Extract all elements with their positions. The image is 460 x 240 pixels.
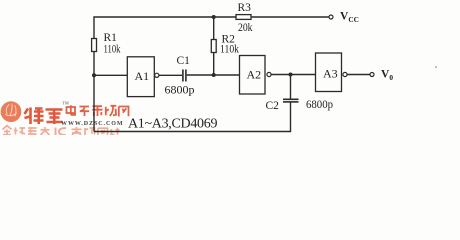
capacitor C2 [283,99,299,102]
label circuit note A1~A3,CD4069 [128,117,217,132]
svg-text:A3: A3 [323,67,338,81]
label R1 [104,32,118,44]
svg-text:110k: 110k [220,44,239,56]
svg-text:R3: R3 [238,2,252,14]
svg-text:A2: A2 [247,68,262,82]
watermark TM [63,101,70,106]
svg-text:6800p: 6800p [306,99,333,111]
inverter A3 [316,53,348,92]
svg-text:R1: R1 [104,32,118,44]
watermark logo circle [1,101,22,122]
junction A2 output / C2 branch [289,73,293,77]
capacitor C1 [183,70,186,82]
label R3 [238,2,252,14]
terminal Vo [370,73,374,77]
wire: top rail [94,17,329,132]
inverter A2 [240,56,272,95]
junction top rail / R2 [212,15,216,19]
label C2 [266,100,280,112]
label 20k (R3) [238,22,253,34]
svg-text:20k: 20k [238,22,253,34]
svg-text:WWW.DZSC.COM: WWW.DZSC.COM [61,121,124,127]
label 6800p (C1) [165,85,195,97]
label 6800p (C2) [306,99,333,111]
svg-text:A1: A1 [135,69,150,83]
svg-text:C2: C2 [266,100,280,112]
wire: A1 output to C1 [159,74,182,76]
label C1 [177,55,191,67]
label 110k (R1) [104,44,121,56]
wire: C2 branch vertical upper [290,75,292,100]
watermark text 维库 (drawn strokes) [25,108,63,125]
wire: A2 output to A3 [271,74,315,76]
label Vo [381,69,393,82]
resistor R2 [211,40,216,53]
label Vcc [340,11,359,24]
wire: C1 to A2 [187,74,240,76]
resistor R1 [92,39,97,52]
junction R2 / signal line [212,73,216,77]
svg-text:TM: TM [63,101,70,106]
inverter A1 [127,57,159,97]
wire: A3 output to Vo [347,74,370,76]
watermark text 电子市场网 (drawn strokes) [67,105,129,116]
resistor R3 [236,15,251,20]
wire: R2 branch vertical [213,17,215,75]
stray scan speck [435,66,437,68]
wire: signal line left rail to A1 [94,74,127,76]
terminal Vcc [329,15,333,19]
svg-text:110k: 110k [104,44,121,56]
svg-text:6800p: 6800p [165,85,195,97]
wire: bottom feedback rail [94,102,291,132]
svg-text:C1: C1 [177,55,191,67]
junction left rail / A1 input [92,73,96,77]
svg-text:A1~A3,CD4069: A1~A3,CD4069 [128,117,217,132]
watermark www.dzsc.com [61,121,124,127]
watermark bottom row 全球最大IC采购网站 (drawn strokes) [3,126,120,136]
label R2 [222,34,236,46]
label 110k (R2) [220,44,239,56]
